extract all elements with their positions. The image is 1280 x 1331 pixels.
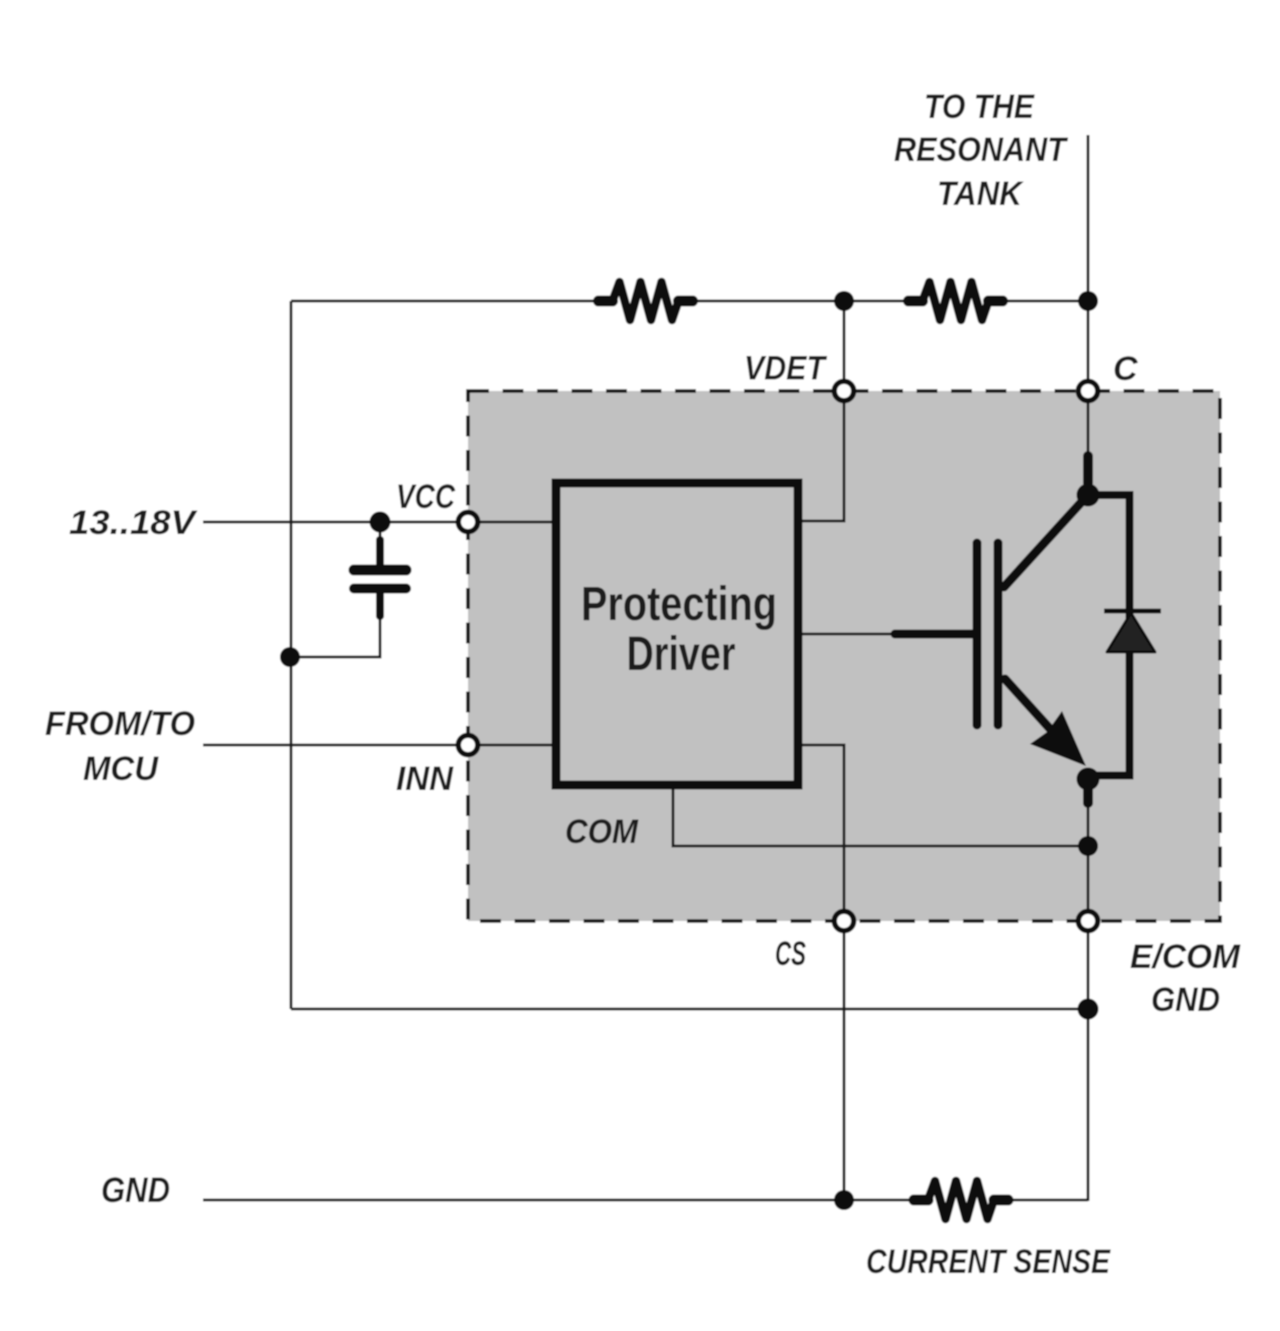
svg-text:13..18V: 13..18V — [69, 504, 199, 542]
svg-text:GND: GND — [101, 1171, 170, 1210]
svg-text:Driver: Driver — [627, 628, 736, 681]
svg-text:FROM/TO: FROM/TO — [45, 705, 195, 743]
svg-text:TO THE: TO THE — [924, 88, 1035, 126]
svg-text:CS: CS — [775, 935, 806, 973]
svg-text:TANK: TANK — [937, 175, 1024, 213]
svg-text:C: C — [1113, 350, 1138, 388]
svg-text:VDET: VDET — [744, 350, 828, 388]
svg-text:RESONANT: RESONANT — [894, 131, 1069, 169]
svg-text:Protecting: Protecting — [581, 578, 777, 631]
svg-text:CURRENT SENSE: CURRENT SENSE — [866, 1243, 1111, 1281]
svg-text:VCC: VCC — [396, 478, 455, 516]
svg-text:MCU: MCU — [83, 750, 159, 788]
svg-text:GND: GND — [1151, 981, 1220, 1019]
svg-text:INN: INN — [396, 760, 454, 798]
svg-text:COM: COM — [565, 813, 639, 851]
svg-text:E/COM: E/COM — [1130, 938, 1241, 976]
